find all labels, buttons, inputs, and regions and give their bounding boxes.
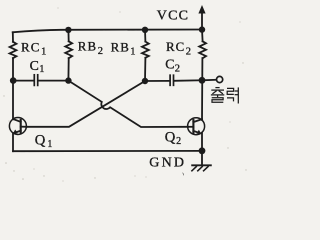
node C2 left junction (142, 78, 148, 84)
node output junction (199, 77, 206, 84)
wire right side lower (201, 133, 203, 151)
resistor RB1 (142, 42, 149, 58)
wire top rail (13, 30, 202, 33)
node top RB1 junction (142, 27, 148, 33)
svg-text:GND: GND (149, 156, 186, 171)
wire bottom rail (13, 150, 202, 152)
VCC arrow (198, 5, 205, 30)
wire C1 row right (39, 80, 69, 82)
transistor Q2 (188, 118, 205, 135)
capacitor C2 (170, 75, 173, 85)
wire diagonal B (26, 81, 145, 127)
ink speck below GND (182, 172, 184, 176)
wire right side mid (201, 58, 203, 120)
wire RB1 to node (144, 58, 146, 81)
wire RC2 drop (201, 30, 204, 42)
node top RB2 junction (65, 27, 71, 33)
node C1 right junction (65, 77, 71, 83)
paper speckles (3, 7, 246, 181)
label output (Korean 출력) drawn as strokes (211, 87, 238, 103)
node top VCC junction (199, 26, 205, 32)
wire left side mid (12, 58, 14, 119)
wire output tap (202, 79, 216, 82)
resistor RC2 (199, 41, 206, 58)
wire RB2 drop (67, 30, 69, 42)
svg-text:VCC: VCC (157, 9, 189, 24)
wire C2 row right (174, 79, 202, 82)
wire C2 row left (145, 80, 169, 82)
wire left side upper (12, 32, 14, 42)
wire RB1 drop (144, 30, 146, 42)
resistor RC1 (10, 42, 17, 58)
output terminal (217, 76, 223, 82)
capacitor C1 (34, 75, 37, 86)
wire left side lower (12, 133, 14, 151)
wire RB2 to node (67, 58, 69, 80)
resistor RB2 (65, 41, 72, 58)
ground (192, 151, 211, 171)
node C1 left junction (10, 77, 17, 84)
wire C1 row left (13, 80, 34, 82)
node ground junction (199, 147, 206, 154)
transistor Q1 (9, 118, 26, 135)
wire diagonal A with hop over B (68, 81, 187, 127)
